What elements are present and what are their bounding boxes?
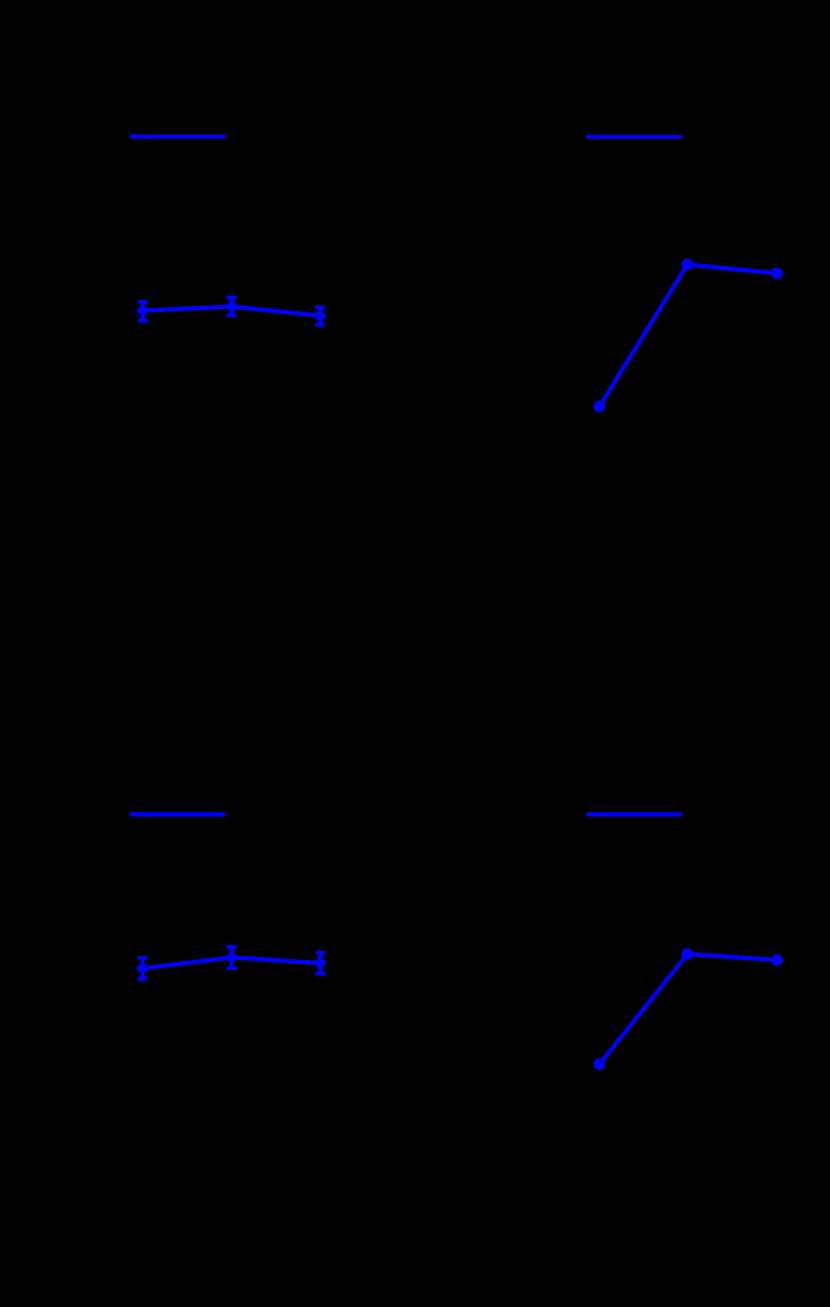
circle marker bottom-right point 1 [594,1058,606,1070]
error bar bottom-left point 2 [226,947,236,968]
circle marker bottom-right point 2 [682,948,694,960]
diamond marker bottom-left point 2 [225,950,238,964]
legend line bottom-left subplot [130,812,225,816]
error bar top-left point 3 [315,307,325,324]
error bar top-left point 2 [227,298,237,316]
diamond marker top-left point 1 [136,304,149,318]
data line top-right series [599,265,777,407]
circle marker top-right point 3 [771,268,783,280]
data line bottom-right series [600,954,778,1064]
error bar bottom-left point 3 [315,953,325,974]
diamond marker bottom-left point 3 [314,956,327,970]
data line top-left series [143,307,320,316]
circle marker top-right point 2 [682,259,694,271]
circle marker bottom-right point 3 [771,954,783,966]
error bar top-left point 1 [138,302,148,321]
circle marker top-right point 1 [594,401,606,413]
legend line top-left subplot [130,135,226,139]
diamond marker bottom-left point 1 [136,961,149,975]
legend line bottom-right subplot [586,812,682,816]
data line bottom-left series [143,957,321,968]
legend line top-right subplot [586,135,682,139]
diamond marker top-left point 2 [225,300,238,314]
error bar bottom-left point 1 [138,958,148,979]
diamond marker top-left point 3 [314,309,327,323]
